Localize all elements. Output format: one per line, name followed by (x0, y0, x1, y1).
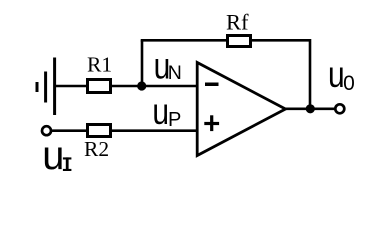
node at output (306, 104, 315, 113)
svg-text:u: u (152, 92, 169, 132)
svg-text:R1: R1 (87, 52, 112, 76)
op-amp plus sign (204, 122, 219, 125)
svg-text:N: N (168, 62, 182, 84)
label u_P (152, 92, 181, 132)
wire feedback left vertical (141, 40, 144, 87)
svg-text:u: u (42, 131, 64, 178)
label u_I (42, 131, 71, 178)
input terminal u_I (42, 126, 51, 135)
svg-text:R2: R2 (84, 137, 109, 161)
output terminal u_O (335, 104, 344, 113)
label u_N (154, 47, 182, 87)
wire R1 to op-amp inverting input (111, 85, 198, 88)
wire op-amp output (285, 108, 335, 111)
wire feedback top horizontal (141, 39, 310, 42)
wire terminal to R2 (52, 129, 88, 132)
wire R2 to op-amp non-inverting input (111, 129, 198, 132)
svg-text:0: 0 (343, 72, 355, 95)
resistor R2 (88, 125, 111, 137)
wire ground to R1 (55, 85, 88, 88)
ground (37, 58, 55, 116)
svg-text:P: P (168, 109, 181, 131)
svg-text:Rf: Rf (226, 10, 249, 35)
wire feedback right vertical (309, 39, 312, 109)
resistor R1 (88, 80, 111, 93)
resistor Rf (228, 36, 251, 47)
node at u_N junction (137, 81, 146, 90)
label u_O (328, 55, 355, 95)
op-amp minus sign (205, 83, 219, 87)
op-amp U1 (197, 63, 285, 156)
